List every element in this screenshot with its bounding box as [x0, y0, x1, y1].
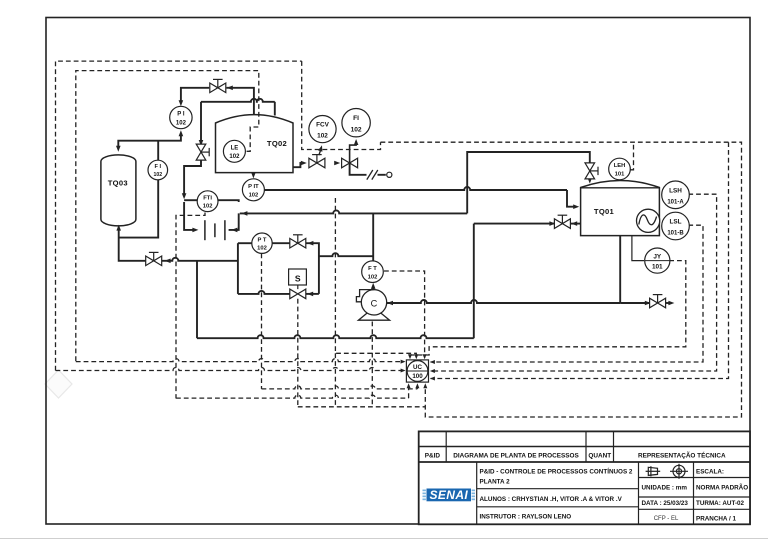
signal line: merged bottom bus [298, 406, 426, 408]
instrument LEH-101 [609, 158, 631, 180]
signal line: outer dashed drop right of FCV [302, 61, 381, 149]
svg-text:102: 102 [203, 204, 213, 210]
svg-text:101-A: 101-A [667, 199, 684, 205]
svg-text:UNIDADE : mm: UNIDADE : mm [642, 485, 688, 492]
pipe: FTI orifice loop [184, 202, 195, 230]
signal line: top dashed run to right side [381, 142, 742, 417]
pipe: TQ01 inlet valve line [474, 223, 554, 225]
line break symbol [367, 170, 378, 180]
level gauge sight glass on TQ01 [637, 209, 660, 232]
pipe: long line FTI to TQ01 top valve [240, 210, 467, 213]
instrument FTI-102 [197, 191, 218, 212]
valve V2 TQ02 feed [196, 144, 209, 160]
pipe: TQ02 outlet to control valves [293, 163, 303, 167]
svg-text:DIAGRAMA DE PLANTA DE PROCESSO: DIAGRAMA DE PLANTA DE PROCESSOS [453, 453, 579, 460]
svg-text:S: S [295, 274, 301, 284]
svg-text:TQ02: TQ02 [267, 139, 287, 148]
svg-text:TQ01: TQ01 [594, 207, 615, 216]
tank TQ03 [101, 155, 136, 226]
pipe: TQ02 vapor return to valve and PI-102 [227, 88, 254, 115]
orifice flow element [205, 220, 225, 240]
pipe: TQ02 bottom to PIT-102 [252, 173, 254, 176]
svg-text:ESCALA:: ESCALA: [696, 469, 724, 476]
signal line: S solenoid to bottom bus [297, 299, 299, 407]
title block [419, 431, 750, 524]
pipe: TQ01 top valve to dome [589, 178, 591, 181]
valve V3 block [342, 158, 358, 168]
svg-text:100: 100 [412, 373, 423, 380]
svg-text:LEH: LEH [614, 163, 626, 169]
controller UC-100 (shared display) [406, 360, 428, 382]
pump C (centrifugal) [356, 290, 389, 321]
pipe: sample drain with line break [350, 163, 367, 175]
svg-text:LSH: LSH [669, 187, 682, 194]
instrument FT-102 [362, 261, 384, 283]
valve V4 TQ03 outlet [146, 252, 162, 265]
svg-text:CFP - EL: CFP - EL [654, 516, 679, 522]
instrument FI-102 top [342, 109, 370, 137]
tank TQ01 [581, 180, 660, 235]
pipe: FT-102 riser [372, 213, 374, 261]
svg-text:TQ03: TQ03 [108, 179, 128, 188]
signal line: outer dashed bottom into UC left [56, 368, 404, 371]
instrument LSL-101B [662, 212, 690, 240]
pipe: PIT-102 line to TQ01 inlet [265, 187, 568, 190]
svg-text:102: 102 [176, 120, 187, 126]
instrument PT-102 [252, 233, 272, 253]
svg-text:F I: F I [155, 164, 162, 170]
signal line: PIT-102 to UC top [335, 198, 416, 358]
valve V7 TQ01 inlet [554, 215, 570, 228]
signal line: PT drop into UC bottom [416, 386, 418, 389]
first angle projection symbol [646, 466, 661, 476]
svg-text:PRANCHA / 1: PRANCHA / 1 [696, 516, 736, 523]
signal line: outer dashed loop (UC bus) left/top [56, 61, 302, 370]
svg-text:JY: JY [653, 253, 662, 260]
signal line: LSH-101A to UC [431, 194, 717, 371]
instrument LSH-101A [662, 181, 690, 209]
pipe: TQ03 valve to main junction [162, 258, 198, 261]
tank TQ02 [216, 115, 294, 173]
signal line: FT-102 to UC top [384, 271, 425, 358]
svg-text:P IT: P IT [248, 184, 259, 190]
valve V8 TQ01 top [585, 163, 598, 179]
pipe: TQ02 feed line to dome [200, 102, 202, 143]
instrument PIT-102 [242, 179, 264, 201]
instrument FI-102 left [148, 160, 168, 180]
pipe: riser from bottom header to TQ01 inlet valve [473, 224, 475, 339]
signal line: LEH-101 to top bus [630, 142, 633, 170]
valve V6 solenoid body [290, 289, 306, 299]
pipe: vertical valve outlet to FTI assembly [184, 158, 201, 196]
svg-text:REPRESENTAÇÃO TÉCNICA: REPRESENTAÇÃO TÉCNICA [638, 451, 726, 460]
svg-text:UC: UC [413, 364, 422, 371]
svg-text:PLANTA 2: PLANTA 2 [480, 479, 511, 486]
pipe: bottom main header [197, 335, 474, 338]
svg-text:102: 102 [257, 246, 267, 252]
pipe: valve2 riser to FI-102 [350, 141, 357, 163]
signal line: FTI box drop to UC bottom [176, 213, 205, 399]
svg-text:102: 102 [229, 154, 240, 160]
svg-text:P&ID - CONTROLE DE PROCESSOS C: P&ID - CONTROLE DE PROCESSOS CONTÍNUOS 2 [480, 467, 633, 476]
svg-text:LE: LE [231, 145, 239, 151]
pipe: pump discharge to FT-102 [372, 286, 374, 290]
signal line: JY-101 to UC top [410, 261, 686, 358]
svg-text:102: 102 [368, 274, 378, 280]
solenoid S box [289, 269, 307, 289]
SENAI logo [423, 488, 476, 502]
svg-text:ALUNOS : CRHYSTIAN .H, VITOR .: ALUNOS : CRHYSTIAN .H, VITOR .A & VITOR … [480, 496, 623, 503]
svg-text:P T: P T [258, 237, 267, 243]
svg-text:DATA : 25/03/23: DATA : 25/03/23 [642, 500, 689, 507]
open end connector [387, 172, 392, 177]
signal line: LSL-101B to UC [431, 225, 704, 362]
signal line: PT-102 to UC bottom [261, 253, 263, 389]
svg-text:102: 102 [249, 193, 259, 199]
pipe: PI-102 to TQ03 top header [118, 134, 181, 148]
svg-text:FCV: FCV [316, 122, 330, 129]
instrument JY-101 [645, 248, 670, 273]
signal line: inner dashed loop (LE to UC) [76, 71, 259, 362]
pipe: FI-102 down to TQ03 bottom [119, 180, 159, 238]
pipe: pump suction from TQ01 bottom [387, 300, 620, 303]
valve V5 PT loop [290, 235, 306, 248]
pipe: PT-102 bypass loop [237, 243, 239, 294]
svg-text:101-B: 101-B [667, 231, 684, 237]
pipe: TQ03 bottom outlet loop [119, 228, 146, 261]
pipe: TQ01 bottom to JY-101 [632, 236, 644, 261]
svg-text:INSTRUTOR : RAYLSON LENO: INSTRUTOR : RAYLSON LENO [480, 514, 572, 521]
valve FCV-102 body [309, 155, 325, 168]
svg-text:P&ID: P&ID [425, 453, 441, 460]
pipe: PT loop bottom through solenoid valve [238, 291, 290, 294]
svg-text:P I: P I [177, 112, 185, 118]
pipe: loop outlet to FT riser [319, 253, 373, 256]
valve V1 reflux [210, 79, 226, 92]
signal line: second right drop from top bus [431, 142, 729, 378]
svg-text:QUANT: QUANT [588, 453, 611, 460]
svg-text:C: C [371, 298, 378, 308]
instrument LE-102 [223, 140, 245, 162]
svg-text:TURMA: AUT-02: TURMA: AUT-02 [696, 500, 745, 507]
svg-text:FTI: FTI [203, 195, 212, 201]
pipe: drain through valve bottom right [620, 302, 650, 304]
svg-text:102: 102 [351, 127, 362, 134]
instrument PI-102 [170, 106, 192, 128]
svg-text:102: 102 [317, 133, 328, 140]
svg-text:FI: FI [353, 115, 359, 122]
svg-text:LSL: LSL [669, 219, 681, 226]
pipe: FCV actuator link [319, 148, 321, 155]
svg-text:F T: F T [368, 266, 377, 272]
svg-text:NORMA PADRÃO: NORMA PADRÃO [696, 483, 748, 492]
instrument FCV-102 [309, 116, 336, 143]
valve V9 drain [650, 295, 666, 308]
svg-text:101: 101 [652, 263, 663, 270]
svg-text:102: 102 [153, 172, 162, 178]
pipe: main junction down to bottom main header [196, 261, 198, 338]
svg-text:SENAI: SENAI [429, 488, 468, 502]
pipe: header to FI-102 riser [157, 141, 159, 161]
signal line: pump motor to bottom bus [371, 322, 373, 407]
projection circle symbol [670, 464, 688, 479]
pipe: main junction to PT loop [197, 260, 238, 262]
svg-text:101: 101 [615, 172, 625, 178]
